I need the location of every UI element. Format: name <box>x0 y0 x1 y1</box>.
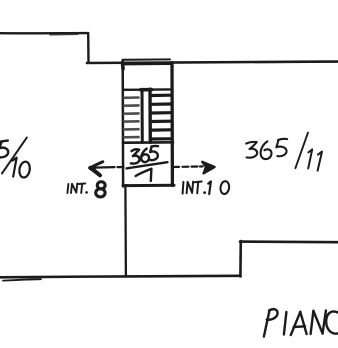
wall bottom-left double stroke <box>3 279 41 280</box>
label INT.10 digit 0 <box>220 181 230 195</box>
central dividing wall <box>124 187 127 277</box>
stair bottom line <box>123 141 173 144</box>
arrow right dash 3 <box>192 165 198 167</box>
label INT.8 dot <box>85 191 88 194</box>
label INT.10 letters <box>183 182 202 194</box>
label INT.8 digit 8 <box>96 182 105 197</box>
stair tread left 1 <box>124 96 138 99</box>
label 365/1 digit 6 <box>141 149 149 163</box>
stair shaft right wall <box>170 63 174 186</box>
stair tread left 4 <box>124 120 138 123</box>
stair tread right 5 <box>152 128 170 132</box>
label 365/1 fraction bar <box>127 162 168 168</box>
wall bottom-left horizontal <box>0 276 241 278</box>
stair shaft left wall <box>121 61 124 187</box>
arrow left head tip <box>89 166 95 170</box>
label PIANO letter N <box>311 311 326 335</box>
stair shaft top edge <box>123 58 171 60</box>
label PIANO letter I <box>284 312 287 335</box>
label 365/1 digit 1 <box>136 169 152 181</box>
arrow right dash 2 <box>183 166 189 168</box>
stair tread left 2 <box>124 104 138 107</box>
wall top-left horizontal <box>0 32 88 35</box>
stair tread right 1 <box>152 94 170 98</box>
wall main top horizontal <box>87 62 338 63</box>
label 365/10 slash <box>2 138 27 174</box>
label 365/11 digit 1a <box>308 149 312 168</box>
stair tread left 6 <box>124 136 138 139</box>
stair tread right 3 <box>152 111 170 115</box>
stair tread left 5 <box>124 128 138 131</box>
stair stringer right rail <box>148 89 152 142</box>
stair tread right 4 <box>152 120 170 124</box>
label 365/11 digit 6 <box>261 141 272 159</box>
stair stringer left rail <box>141 89 144 142</box>
stair tread left 3 <box>124 112 138 115</box>
stair landing line <box>124 88 171 91</box>
wall step vertical <box>87 33 90 62</box>
stair shaft top edge lower line <box>123 63 170 65</box>
arrow right dash 1 <box>173 166 179 168</box>
arrow left head upper barb <box>90 162 103 168</box>
arrow left head lower barb <box>90 168 100 176</box>
arrow right dash 4 <box>200 165 203 167</box>
label 365/10 digit 0 <box>18 161 31 179</box>
label 365/1 digit 5 <box>150 146 158 160</box>
arrow left shaft <box>94 166 115 169</box>
label 365/11 digit 3 <box>246 142 257 158</box>
label 365/1 digit 3 <box>131 149 140 163</box>
stair stringer top blob <box>141 88 152 92</box>
wall top-left double stroke <box>50 33 78 36</box>
label 365/11 digit 5 <box>276 139 287 156</box>
stair tread right 6 <box>152 137 170 140</box>
label PIANO letter O partial <box>326 311 338 333</box>
arrow right head <box>202 162 214 174</box>
wall bottom step vertical <box>239 241 242 277</box>
label PIANO letter P <box>264 309 278 336</box>
stair tread right 2 <box>152 102 170 106</box>
label 365/11 slash <box>295 133 308 169</box>
label INT.10 dot <box>203 191 206 194</box>
wall bottom-right horizontal <box>240 240 338 243</box>
arrow left dash <box>118 166 124 168</box>
wall junction blob at shaft left <box>121 63 125 70</box>
label PIANO letter A <box>291 312 307 335</box>
fraction box bottom wall <box>123 184 174 187</box>
label 365/10 digit 1 <box>12 158 16 177</box>
label 365/11 digit 1b <box>318 152 322 171</box>
label INT.8 letters <box>67 183 85 193</box>
label 365/10 digit 5 partial <box>0 141 8 158</box>
label INT.10 digit 1 <box>208 181 211 194</box>
